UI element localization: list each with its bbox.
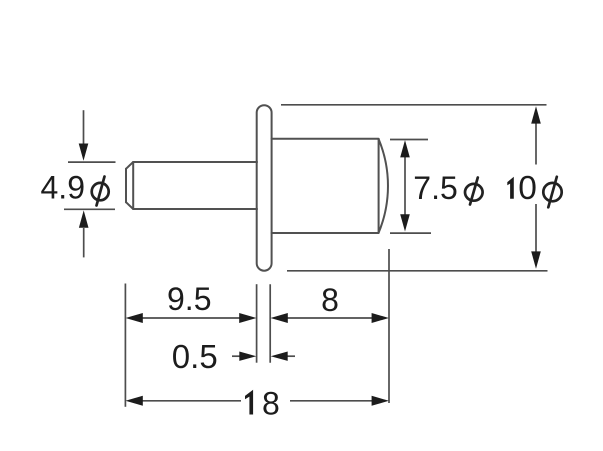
label 10 xyxy=(507,177,514,199)
ext line 4.9 top xyxy=(68,161,116,163)
svg-text:4.9: 4.9 xyxy=(41,170,85,206)
ext line 7.5 bottom xyxy=(390,232,431,234)
phi symbol of 10 xyxy=(543,183,561,201)
dim 0.5 left shaft xyxy=(232,355,243,357)
ext line left (pin end) xyxy=(124,284,126,407)
arrowhead 18 right xyxy=(372,396,389,406)
dim 9.5 line xyxy=(140,317,242,319)
ext line 10 top xyxy=(281,104,547,106)
ext line 10 bottom xyxy=(287,270,548,272)
arrowhead 8 right xyxy=(372,313,389,323)
dim 4.9 lower shaft xyxy=(83,228,85,257)
arrowhead 9.5 right xyxy=(239,313,256,323)
dim 18 right segment xyxy=(290,400,374,402)
cylinder top edge xyxy=(272,138,379,140)
svg-text:9.5: 9.5 xyxy=(167,281,211,317)
cylinder dome arc xyxy=(379,139,388,233)
arrowhead 18 left xyxy=(126,396,143,406)
dim 0.5 right shaft xyxy=(284,355,295,357)
dim 10 lower shaft xyxy=(535,204,537,252)
dim 4.9 upper shaft xyxy=(83,110,85,146)
pin bottom edge xyxy=(133,208,257,210)
svg-text:8: 8 xyxy=(321,282,339,318)
arrowhead 10 down xyxy=(531,251,541,268)
ext line flange right xyxy=(269,284,271,363)
ext line flange left xyxy=(256,284,258,363)
arrowhead 4.9 down xyxy=(79,144,89,161)
arrowhead 10 up xyxy=(531,106,541,123)
dim 10 upper shaft xyxy=(535,122,537,165)
pin left edge xyxy=(125,169,127,202)
svg-text:0.5: 0.5 xyxy=(172,338,218,375)
svg-text:7.5: 7.5 xyxy=(413,170,457,206)
pin chamfer top xyxy=(126,162,133,169)
pin chamfer edge xyxy=(132,162,134,209)
cylinder dome chord xyxy=(378,139,380,233)
dim 7.5 shaft xyxy=(404,155,406,216)
ext line 4.9 bottom xyxy=(64,208,115,210)
arrowhead 4.9 up xyxy=(79,210,89,227)
svg-text:8: 8 xyxy=(262,385,280,421)
arrowhead 7.5 down xyxy=(400,214,410,231)
pin chamfer bottom xyxy=(126,202,133,209)
ext line right (cylinder end) xyxy=(388,249,390,403)
phi symbol of 4.9 xyxy=(92,183,109,200)
pin top edge xyxy=(133,161,257,163)
ext line 7.5 top xyxy=(390,139,428,141)
arrowhead 7.5 up xyxy=(400,140,410,157)
cylinder bottom edge xyxy=(272,232,379,234)
dim 18 left segment xyxy=(140,400,241,402)
svg-text:0: 0 xyxy=(518,170,537,207)
arrowhead 9.5 left xyxy=(126,313,143,323)
phi symbol of 7.5 xyxy=(465,184,483,201)
arrowhead 0.5 right xyxy=(239,352,256,361)
label 18 xyxy=(245,390,253,415)
flange xyxy=(257,105,272,271)
dim 8 line xyxy=(285,317,374,319)
arrowhead 0.5 left xyxy=(271,352,288,361)
arrowhead 8 left xyxy=(271,313,288,323)
